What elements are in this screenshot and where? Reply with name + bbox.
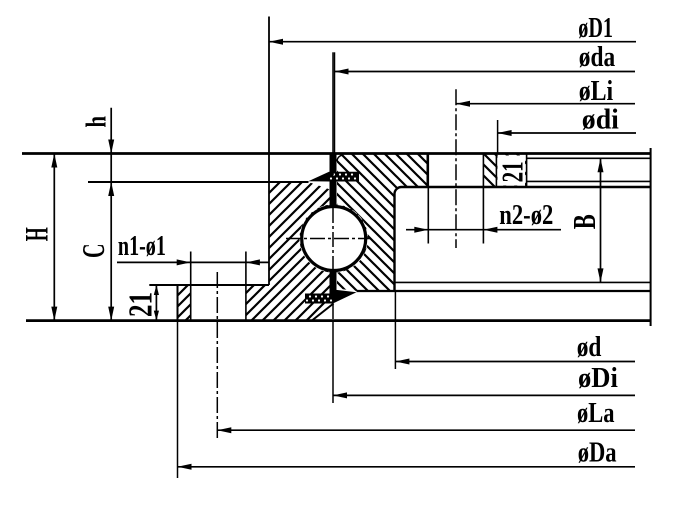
svg-text:21: 21: [122, 292, 159, 317]
svg-text:B: B: [566, 214, 602, 229]
svg-text:ød: ød: [577, 331, 602, 363]
svg-text:n2-ø2: n2-ø2: [499, 199, 553, 231]
svg-text:n1-ø1: n1-ø1: [118, 230, 166, 262]
svg-text:21: 21: [495, 161, 530, 182]
svg-text:øda: øda: [579, 41, 616, 73]
svg-text:øLi: øLi: [579, 75, 614, 107]
svg-text:C: C: [75, 243, 111, 258]
svg-text:øDa: øDa: [578, 437, 617, 469]
svg-text:øD1: øD1: [578, 12, 613, 44]
svg-text:øDi: øDi: [578, 362, 618, 394]
svg-text:h: h: [82, 116, 113, 128]
svg-text:ødi: ødi: [582, 104, 619, 136]
svg-text:øLa: øLa: [577, 397, 615, 429]
svg-text:H: H: [20, 227, 56, 241]
